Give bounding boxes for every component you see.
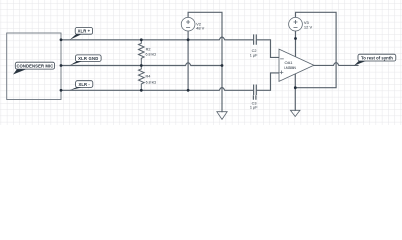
ground (48V rail) [217, 112, 227, 120]
svg-text:1 µF: 1 µF [250, 106, 258, 110]
flag XLR - [70, 81, 93, 91]
voltage source V3 12 V [289, 17, 303, 31]
capacitor C3 1 uF plates [254, 85, 257, 94]
junction R2/R4 / XLR GND line [140, 64, 143, 67]
wire XLR+ line from box to C2, hop over 48V rail [61, 37, 253, 40]
wire C3 to op-amp non-inverting input [257, 73, 279, 90]
capacitor C2 1 uF plates [254, 35, 257, 44]
svg-text:CONDENSER MIC: CONDENSER MIC [16, 63, 53, 68]
junction at mic box XLR+ pin [60, 38, 63, 41]
flag CONDENSER MIC [13, 62, 55, 74]
svg-text:XLR GND: XLR GND [78, 56, 98, 61]
op-amp OA1 LM386N triangle [279, 49, 314, 81]
junction R4 bottom / XLR- line [140, 89, 143, 92]
svg-text:XLR +: XLR + [78, 29, 91, 34]
junction V3 pin node [294, 37, 297, 40]
junction op-amp V- pin / 12V return [294, 86, 297, 89]
svg-text:48 V: 48 V [196, 26, 205, 31]
svg-text:6.8 kΩ: 6.8 kΩ [146, 80, 157, 84]
svg-text:To rest of synth: To rest of synth [361, 55, 393, 60]
wire XLR- line from box to C3, hop over 48V rail [61, 88, 253, 91]
junction V2 pin / XLR- line [187, 89, 190, 92]
svg-text:R2: R2 [146, 47, 151, 51]
svg-text:XLR -: XLR - [78, 82, 90, 87]
wire XLR GND line from box to 48V rail, hop over V2 pin [61, 63, 222, 66]
wire C2 to op-amp inverting input [257, 40, 279, 58]
flag XLR GND [70, 55, 101, 66]
junction R2 top / XLR+ line [140, 38, 143, 41]
component labels [146, 20, 313, 110]
svg-text:R4: R4 [146, 74, 151, 78]
voltage source V2 48 V [181, 17, 195, 31]
junction at mic box XLR- pin [60, 89, 63, 92]
svg-text:OA1: OA1 [285, 60, 294, 65]
svg-text:LM386N: LM386N [284, 66, 296, 70]
wire V2 bottom pin down across lines [187, 31, 189, 90]
flag To rest of synth [354, 54, 396, 65]
wire op-amp V- pin down to ground [294, 74, 296, 111]
flag XLR + [70, 28, 93, 40]
wire V3 to op-amp V+ pin [295, 31, 297, 56]
svg-text:1 µF: 1 µF [250, 53, 258, 57]
background grid [0, 0, 402, 125]
condenser mic block (CONDENSER MIC) [7, 33, 61, 100]
wire op-amp output with hop over 12V rail [314, 63, 358, 66]
svg-text:6.8 kΩ: 6.8 kΩ [146, 53, 157, 57]
marks below C3 [253, 96, 256, 99]
svg-text:12 V: 12 V [304, 24, 313, 29]
ground (op-amp) [290, 110, 300, 116]
junction at mic box XLR GND pin [60, 64, 63, 67]
resistor R2 6.8 kOhm [139, 40, 145, 66]
resistor R4 6.8 kOhm [139, 66, 145, 91]
wire V3 top loop and 12V rail to bottom return [296, 12, 337, 87]
junction V2 pin / XLR+ line [187, 38, 190, 41]
wire V2 top loop into 48V rail down to ground [188, 12, 222, 111]
junction XLR GND line / 48V rail [221, 64, 224, 67]
